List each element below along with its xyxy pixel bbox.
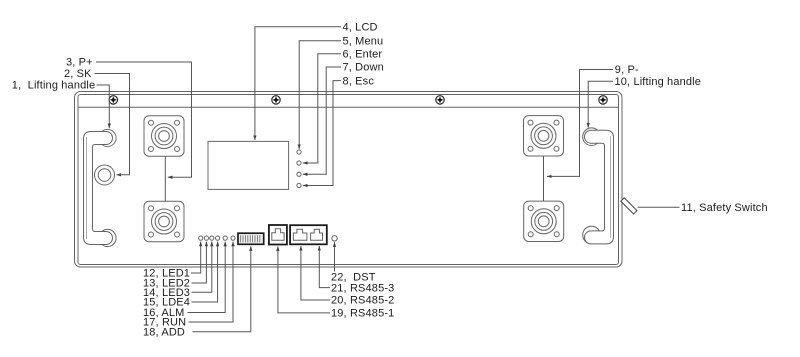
svg-text:20, RS485-2: 20, RS485-2 <box>331 295 394 307</box>
connector P+ top (square socket) <box>144 116 184 156</box>
panel outer outline <box>75 92 623 268</box>
lifting handle right top mount <box>583 128 601 146</box>
leader line 8 Esc <box>303 81 341 186</box>
button Esc <box>297 183 301 187</box>
svg-text:10, Lifting handle: 10, Lifting handle <box>615 76 702 88</box>
leader line 4 LCD <box>255 27 341 140</box>
button Enter <box>297 161 301 165</box>
leader line 21 RS485-3 <box>319 246 330 288</box>
leader line 18 ADD <box>193 246 251 332</box>
panel inner outline <box>78 95 619 265</box>
leader line 7 Down <box>303 67 341 174</box>
leader line 22 DST <box>334 242 336 271</box>
leader line 16 ALM <box>188 242 226 313</box>
screw 1 <box>109 96 117 104</box>
leader line 11 safety switch <box>638 206 680 208</box>
connector P- bottom (square socket) <box>524 201 564 241</box>
lifting handle right body <box>585 130 614 244</box>
SK connector outer circle <box>95 165 115 185</box>
svg-text:7, Down: 7, Down <box>343 62 384 74</box>
button Menu <box>297 150 301 154</box>
LCD screen <box>208 141 289 189</box>
lifting handle left body <box>84 132 113 245</box>
LED3 <box>210 236 214 240</box>
leader line 17 RUN <box>189 242 234 322</box>
RJ45 RS485-2/3 box <box>290 225 327 244</box>
leader line 19 RS485-1 <box>278 246 330 313</box>
connector P- top (square socket) <box>524 116 564 156</box>
RJ45 RS485-1 jack <box>272 229 284 241</box>
screw 4 <box>599 96 607 104</box>
svg-text:3, P+: 3, P+ <box>66 57 93 69</box>
svg-text:6, Enter: 6, Enter <box>343 48 383 60</box>
SK connector inner circle <box>98 169 111 182</box>
connector P+ bottom (square socket) <box>144 201 184 241</box>
leader line 5 Menu <box>299 41 341 149</box>
leader line 9 P- <box>547 70 613 177</box>
lifting handle right bottom mount <box>583 226 601 244</box>
svg-text:18, ADD: 18, ADD <box>143 326 185 338</box>
svg-text:19, RS485-1: 19, RS485-1 <box>331 308 394 320</box>
DST button <box>332 236 337 241</box>
wire between P- connectors <box>543 156 545 201</box>
leader line 14 LED3 <box>192 242 212 293</box>
svg-text:9, P-: 9, P- <box>615 64 639 76</box>
LED ALM <box>223 236 227 240</box>
leader line 6 Enter <box>303 54 341 163</box>
leader line 20 RS485-2 <box>301 246 330 300</box>
screw 3 <box>436 96 444 104</box>
lifting handle left top mount <box>99 129 116 146</box>
screw 2 <box>272 96 280 104</box>
LED2 <box>204 236 208 240</box>
svg-text:2, SK: 2, SK <box>64 68 92 80</box>
button Down <box>297 172 301 176</box>
RJ45 RS485-1 box <box>269 225 287 245</box>
lifting handle right bar highlight <box>609 136 611 238</box>
svg-text:4, LCD: 4, LCD <box>343 22 378 34</box>
LED4 <box>216 236 220 240</box>
svg-text:21, RS485-3: 21, RS485-3 <box>331 282 394 294</box>
leader line 10 lifting handle <box>588 81 613 127</box>
wire between P+ connectors <box>164 156 166 201</box>
LED1 <box>199 236 203 240</box>
svg-text:5, Menu: 5, Menu <box>343 35 384 47</box>
leader line 15 LDE4 <box>192 242 218 302</box>
LED RUN <box>231 236 235 240</box>
svg-text:11, Safety Switch: 11, Safety Switch <box>681 202 768 214</box>
leader line 13 LED2 <box>192 242 207 283</box>
svg-text:22, DST: 22, DST <box>331 272 376 284</box>
leader line 2 SK <box>95 74 130 175</box>
RJ45 RS485-3 jack <box>311 229 323 240</box>
safety switch lever <box>621 198 637 214</box>
leader line 3 P+ <box>96 62 192 177</box>
svg-text:8, Esc: 8, Esc <box>343 75 375 87</box>
top strip line <box>78 106 619 108</box>
RJ45 RS485-2 jack <box>293 229 307 240</box>
DIP switch ADD <box>238 233 264 244</box>
leader line 1 lifting handle <box>97 85 110 128</box>
leader line 12 LED1 <box>191 242 201 273</box>
svg-text:1, Lifting handle: 1, Lifting handle <box>12 80 95 92</box>
lifting handle left bottom mount <box>99 229 116 246</box>
lifting handle left bar highlight <box>86 137 88 239</box>
